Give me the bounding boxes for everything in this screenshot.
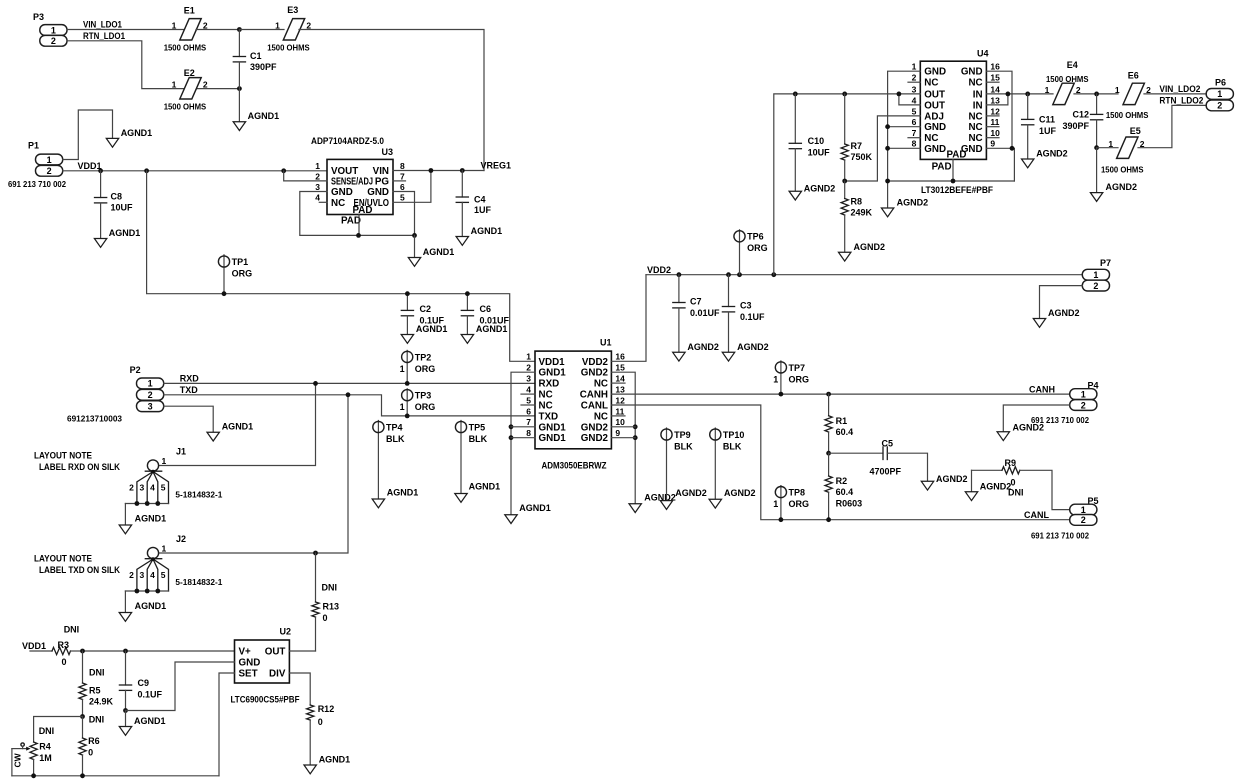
wire VDD1 to C2/C6/U1 <box>147 171 535 361</box>
svg-text:1: 1 <box>1081 389 1086 399</box>
junction VDD1-U3.2 <box>281 168 286 173</box>
svg-text:AGND1: AGND1 <box>134 716 166 726</box>
ground AGND2 (P7) <box>1033 308 1079 327</box>
svg-text:1: 1 <box>162 456 167 466</box>
svg-text:1: 1 <box>773 499 778 509</box>
svg-text:NC: NC <box>539 401 553 412</box>
svg-text:NC: NC <box>924 78 938 89</box>
regulator U4 body <box>920 61 986 159</box>
svg-text:RTN_LDO2: RTN_LDO2 <box>1159 96 1203 106</box>
junction EN-VIN <box>429 168 434 173</box>
svg-text:9: 9 <box>615 428 620 438</box>
resistor R6 <box>79 717 100 776</box>
wire U4.3 OUT <box>774 94 921 275</box>
svg-text:PG: PG <box>375 176 390 187</box>
wire P1.1 to AGND1 <box>63 110 113 160</box>
U4 pin names right <box>961 67 983 155</box>
svg-text:VIN_LDO1: VIN_LDO1 <box>83 20 122 30</box>
capacitor C12 <box>1062 94 1102 148</box>
svg-text:P1: P1 <box>28 141 39 151</box>
junction pin16-pin9 <box>1010 146 1015 151</box>
svg-text:0: 0 <box>88 747 93 757</box>
wire U4.14 IN <box>986 93 1053 95</box>
svg-text:0: 0 <box>323 613 328 623</box>
junction U1.9 <box>633 435 638 440</box>
svg-text:5-1814832-1: 5-1814832-1 <box>175 490 222 500</box>
wire U1.16 VDD2 <box>611 275 646 362</box>
test point TP3 <box>400 390 436 413</box>
ferrite bead E4 <box>1045 60 1089 105</box>
svg-text:GND1: GND1 <box>539 368 567 379</box>
U4 pin11 NC stub <box>986 126 999 128</box>
wire U1.15 GND2 <box>611 372 635 504</box>
svg-text:11: 11 <box>615 406 624 416</box>
ground AGND2 (R8) <box>839 242 886 261</box>
junction C3-VDD2 <box>726 272 731 277</box>
wire VDD1 to U2 <box>83 650 235 652</box>
svg-text:AGND1: AGND1 <box>248 111 280 121</box>
svg-text:P2: P2 <box>130 365 141 375</box>
U1 pin5 NC stub <box>521 404 535 406</box>
wire U1.8 GND1 <box>511 437 535 439</box>
svg-text:8: 8 <box>526 428 531 438</box>
svg-text:TXD: TXD <box>180 385 199 395</box>
junction J1-RXD <box>313 381 318 386</box>
svg-text:AGND2: AGND2 <box>1036 149 1068 159</box>
resistor R1 <box>825 392 853 454</box>
capacitor C10 <box>789 92 830 192</box>
wire C12 gnd <box>1096 148 1098 193</box>
svg-text:C5: C5 <box>882 439 894 449</box>
layout note J1 <box>34 450 120 472</box>
svg-text:VDD2: VDD2 <box>647 265 671 275</box>
svg-text:TP1: TP1 <box>232 257 249 267</box>
svg-text:AGND1: AGND1 <box>109 228 141 238</box>
U1 pin14 NC stub <box>611 382 625 384</box>
svg-text:C1: C1 <box>250 51 262 61</box>
svg-text:6: 6 <box>400 182 405 192</box>
svg-text:2: 2 <box>129 570 134 580</box>
svg-text:CANH: CANH <box>580 390 608 401</box>
resistor R7 <box>841 92 872 182</box>
svg-text:4: 4 <box>912 95 917 105</box>
svg-text:NC: NC <box>968 122 982 133</box>
wire J2.1 to TXD <box>159 395 348 553</box>
svg-text:4700PF: 4700PF <box>870 467 902 477</box>
svg-text:0: 0 <box>318 717 323 727</box>
connector P2 <box>67 365 164 424</box>
U3 pin names right <box>354 166 390 209</box>
svg-text:13: 13 <box>990 95 1000 105</box>
ground AGND1 (C6) <box>461 324 507 343</box>
wire U4.16 GND <box>986 71 1012 148</box>
svg-text:PAD: PAD <box>341 215 361 226</box>
junction U4.6 <box>885 124 890 129</box>
junction OUT pins <box>897 92 902 97</box>
U1 pin11 NC stub <box>611 415 625 417</box>
oscillator U2 designator <box>280 627 292 637</box>
test point TP6 <box>734 231 768 254</box>
ground AGND2 (P4) <box>997 423 1044 441</box>
resistor R2 <box>825 453 862 520</box>
svg-text:RTN_LDO1: RTN_LDO1 <box>83 31 125 41</box>
svg-text:E2: E2 <box>184 68 195 78</box>
junction R1-R2-C5 <box>826 451 831 456</box>
wire U3.5 EN <box>393 171 431 203</box>
svg-text:C3: C3 <box>740 301 752 311</box>
wire E5.2 RTN_LDO2 <box>1138 105 1206 147</box>
svg-text:14: 14 <box>615 374 625 384</box>
svg-text:1: 1 <box>51 25 56 35</box>
svg-text:AGND2: AGND2 <box>737 342 769 352</box>
part number LT3012BEFE#PBF <box>921 185 993 196</box>
svg-text:TP5: TP5 <box>469 422 486 432</box>
wire VIN_LDO1 <box>67 29 185 31</box>
junction IN pins <box>1006 92 1011 97</box>
svg-text:DIV: DIV <box>269 669 286 680</box>
op-amp U3 designator <box>382 147 394 157</box>
ground AGND2 (C12) <box>1090 182 1137 201</box>
svg-text:GND: GND <box>961 67 983 78</box>
svg-text:C7: C7 <box>690 297 702 307</box>
svg-text:CANH: CANH <box>1029 384 1055 394</box>
svg-text:LT3012BEFE#PBF: LT3012BEFE#PBF <box>921 185 993 196</box>
svg-text:1: 1 <box>773 374 778 384</box>
svg-text:LTC6900CS5#PBF: LTC6900CS5#PBF <box>231 695 300 706</box>
ground AGND2 (TP10) <box>709 488 755 508</box>
svg-text:U2: U2 <box>280 627 292 637</box>
svg-text:1: 1 <box>148 379 153 389</box>
wire U4 PAD <box>952 159 954 181</box>
svg-text:U3: U3 <box>382 147 394 157</box>
svg-text:0: 0 <box>62 657 67 667</box>
svg-text:5: 5 <box>161 483 166 493</box>
svg-text:RXD: RXD <box>180 374 200 384</box>
U4 pin2 NC stub <box>908 81 920 83</box>
svg-text:AGND1: AGND1 <box>476 324 508 334</box>
junction C2 <box>405 291 410 296</box>
U2 pin names <box>239 647 286 680</box>
svg-text:R0603: R0603 <box>836 498 863 508</box>
potentiometer R4 <box>30 726 54 776</box>
U1 pin names left <box>539 357 567 444</box>
junction C9 bottom <box>123 708 128 713</box>
junction PAD row <box>951 179 956 184</box>
svg-text:7: 7 <box>526 417 531 427</box>
svg-text:1: 1 <box>912 62 917 72</box>
svg-text:ORG: ORG <box>232 268 253 278</box>
svg-text:AGND1: AGND1 <box>121 128 153 138</box>
connector P5 <box>1031 496 1099 541</box>
svg-text:1: 1 <box>172 80 177 90</box>
connector P4 <box>1031 380 1099 425</box>
ferrite bead E3 <box>267 5 311 53</box>
svg-text:AGND2: AGND2 <box>936 474 968 484</box>
wire E6.2 VIN_LDO2 <box>1144 93 1206 95</box>
svg-text:AGND2: AGND2 <box>675 488 707 498</box>
svg-text:3: 3 <box>148 402 153 412</box>
svg-text:2: 2 <box>129 483 134 493</box>
svg-text:14: 14 <box>990 84 1000 94</box>
svg-text:R4: R4 <box>39 742 51 752</box>
svg-text:P7: P7 <box>1100 258 1111 268</box>
junction C11-IN <box>1025 92 1030 97</box>
svg-text:1500 OHMS: 1500 OHMS <box>164 102 207 112</box>
svg-text:V+: V+ <box>239 647 252 658</box>
svg-text:60.4: 60.4 <box>836 487 854 497</box>
svg-text:SENSE/ADJ: SENSE/ADJ <box>331 176 373 187</box>
svg-text:VDD2: VDD2 <box>582 357 609 368</box>
junction U1.7 <box>509 424 514 429</box>
wire R9 gnd <box>971 470 973 492</box>
svg-text:AGND2: AGND2 <box>724 488 756 498</box>
wire E5 row <box>1097 147 1118 149</box>
wire GND row <box>888 180 1015 182</box>
part number ADP7104ARDZ-5.0 <box>311 136 384 147</box>
svg-text:OUT: OUT <box>265 647 286 658</box>
svg-text:ORG: ORG <box>789 374 810 384</box>
wire TP4 lead <box>377 421 379 500</box>
svg-text:13: 13 <box>615 385 625 395</box>
test point TP9 <box>661 429 693 452</box>
wire U2 GND <box>126 662 235 711</box>
wire U4.9 GND <box>986 148 1014 181</box>
svg-text:J2: J2 <box>176 534 186 544</box>
ground AGND2 (TP9) <box>660 488 707 510</box>
wire U2 SET <box>219 673 235 776</box>
svg-text:PAD: PAD <box>353 205 373 216</box>
svg-text:C12: C12 <box>1072 110 1089 120</box>
wire VIN line <box>393 170 484 172</box>
wire E1.2 to node A <box>196 29 239 31</box>
svg-text:691213710003: 691213710003 <box>67 414 122 424</box>
capacitor C6 <box>461 294 509 335</box>
wire TP1 lead <box>223 255 225 294</box>
U4 pin numbers right <box>990 62 1000 149</box>
svg-text:1: 1 <box>172 21 177 31</box>
ground AGND2 (C11) <box>1022 149 1068 168</box>
svg-text:2: 2 <box>1081 400 1086 410</box>
wire P7.2 gnd <box>1040 286 1083 319</box>
svg-text:AGND1: AGND1 <box>222 422 254 432</box>
U3 pin numbers right <box>400 161 405 203</box>
resistor R3 <box>30 625 83 668</box>
test point TP10 <box>710 429 745 452</box>
svg-text:16: 16 <box>615 352 625 362</box>
svg-text:E4: E4 <box>1067 60 1078 70</box>
junction C6 <box>465 291 470 296</box>
junction R3-R5 <box>80 649 85 654</box>
junction TP8-CANL <box>779 517 784 522</box>
svg-text:C4: C4 <box>474 194 486 204</box>
svg-text:VOUT: VOUT <box>331 166 358 177</box>
U4 pin10 NC stub <box>986 137 999 139</box>
U4 pin15 NC stub <box>986 81 999 83</box>
connector J1 <box>119 447 222 534</box>
svg-text:GND: GND <box>239 658 261 669</box>
wire C5 gnd <box>887 453 927 481</box>
svg-text:1: 1 <box>1108 139 1113 149</box>
svg-text:U4: U4 <box>977 49 989 59</box>
svg-text:5-1814832-1: 5-1814832-1 <box>175 577 222 587</box>
svg-text:VIN_LDO2: VIN_LDO2 <box>1159 84 1200 94</box>
svg-text:BLK: BLK <box>386 434 405 444</box>
svg-text:1M: 1M <box>39 753 52 763</box>
svg-text:2: 2 <box>912 73 917 83</box>
svg-text:2: 2 <box>47 166 52 176</box>
ferrite bead E2 <box>164 68 208 112</box>
svg-text:7: 7 <box>400 171 405 181</box>
wire U3.3 GND <box>300 192 415 236</box>
svg-text:IN: IN <box>973 89 983 100</box>
ground AGND2 (C3) <box>722 342 768 361</box>
svg-text:12: 12 <box>990 106 1000 116</box>
svg-text:1UF: 1UF <box>1039 126 1057 136</box>
net label RTN_LDO1 <box>83 31 125 41</box>
wire C5 left <box>829 452 883 454</box>
wire R4 wiper to bottom <box>11 749 13 776</box>
oscillator U2 body <box>235 640 290 683</box>
svg-text:NC: NC <box>331 198 345 209</box>
wire VDD1 <box>63 170 327 172</box>
svg-text:1: 1 <box>1115 85 1120 95</box>
wire TP8 lead <box>780 486 782 520</box>
svg-text:NC: NC <box>968 133 982 144</box>
connector P7 <box>1082 258 1111 291</box>
ground AGND1 (C1) <box>233 111 279 130</box>
U4 pin names left <box>924 67 946 155</box>
resistor R13 <box>312 553 339 651</box>
svg-text:PAD: PAD <box>932 161 952 172</box>
svg-text:VDD1: VDD1 <box>22 641 46 651</box>
svg-text:7: 7 <box>912 128 917 138</box>
resistor R12 <box>307 704 335 765</box>
junction TP3-TXD <box>405 414 410 419</box>
junction U1.8 <box>509 435 514 440</box>
svg-text:GND1: GND1 <box>539 422 567 433</box>
svg-text:1500 OHMS: 1500 OHMS <box>1046 74 1089 84</box>
svg-text:4: 4 <box>150 483 155 493</box>
ferrite bead E5 <box>1101 126 1145 175</box>
svg-text:AGND2: AGND2 <box>897 198 929 208</box>
svg-text:PAD: PAD <box>947 149 967 160</box>
resistor R9 <box>972 458 1024 497</box>
net label CANL <box>1024 510 1049 520</box>
ground AGND1 (U3) <box>408 247 454 266</box>
svg-text:J1: J1 <box>176 447 186 457</box>
svg-text:AGND1: AGND1 <box>519 503 551 513</box>
svg-text:AGND2: AGND2 <box>1106 182 1138 192</box>
svg-text:BLK: BLK <box>723 441 742 451</box>
capacitor C2 <box>401 294 444 335</box>
svg-text:LAYOUT NOTE: LAYOUT NOTE <box>34 553 92 563</box>
svg-text:TP7: TP7 <box>789 363 806 373</box>
net label RTN_LDO2 <box>1159 96 1203 106</box>
net label VIN_LDO1 <box>83 20 122 30</box>
svg-text:3: 3 <box>912 84 917 94</box>
wire RTN_LDO1 <box>67 41 185 89</box>
svg-text:GND2: GND2 <box>581 433 609 444</box>
wire U4.5 ADJ <box>845 116 921 181</box>
connector P6 <box>1206 77 1233 111</box>
svg-text:11: 11 <box>990 117 999 127</box>
svg-text:C11: C11 <box>1039 115 1055 125</box>
net label VDD1 <box>78 161 102 171</box>
wire U1.7 GND1 <box>511 426 535 428</box>
svg-text:ADM3050EBRWZ: ADM3050EBRWZ <box>542 460 607 471</box>
svg-text:NC: NC <box>594 411 608 422</box>
svg-text:GND2: GND2 <box>581 422 609 433</box>
junction R7-R8 <box>842 179 847 184</box>
svg-text:0.1UF: 0.1UF <box>138 690 163 700</box>
svg-text:16: 16 <box>990 62 1000 72</box>
svg-text:AGND1: AGND1 <box>471 226 503 236</box>
wire C9 gnd <box>125 711 127 727</box>
wire P2.3 gnd <box>164 406 214 432</box>
U3 pad label inner <box>353 205 373 216</box>
svg-text:GND: GND <box>331 187 353 198</box>
svg-text:GND2: GND2 <box>581 368 609 379</box>
junction TP6-VDD2 <box>737 272 742 277</box>
svg-text:AGND2: AGND2 <box>687 342 719 352</box>
wire U2 DIV <box>289 673 310 705</box>
svg-text:VDD1: VDD1 <box>539 357 566 368</box>
test point TP1 <box>218 256 252 279</box>
ground AGND2 (U1) <box>629 492 676 512</box>
svg-text:TP10: TP10 <box>723 430 745 440</box>
wire TP3 lead <box>406 389 408 416</box>
svg-text:2: 2 <box>148 390 153 400</box>
ground AGND1 (TP5) <box>455 482 500 503</box>
svg-text:691 213 710 002: 691 213 710 002 <box>8 179 66 189</box>
svg-text:3: 3 <box>139 570 144 580</box>
ground AGND2 (C7) <box>673 342 719 361</box>
svg-text:AGND2: AGND2 <box>854 242 886 252</box>
wire TP9 lead <box>666 428 668 501</box>
svg-text:15: 15 <box>990 73 1000 83</box>
U3 pin4 NC stub <box>319 201 327 203</box>
junction C12 bottom <box>1094 145 1099 150</box>
svg-text:LAYOUT NOTE: LAYOUT NOTE <box>34 450 92 460</box>
junction U4.8 <box>885 146 890 151</box>
svg-text:1: 1 <box>315 161 320 171</box>
junction TP2-RXD <box>405 381 410 386</box>
resistor R8 <box>841 181 872 252</box>
wire TXD <box>164 395 535 416</box>
junction C9 top <box>123 649 128 654</box>
ground AGND1 (C9) <box>119 716 165 735</box>
wire bottom rail <box>12 775 219 777</box>
svg-text:1: 1 <box>162 544 167 554</box>
connector P3 <box>33 12 67 46</box>
svg-text:AGND2: AGND2 <box>804 184 836 194</box>
junction TP1 <box>222 291 227 296</box>
junction R5-R6 <box>80 714 85 719</box>
ground AGND2 (R9) <box>965 482 1011 501</box>
svg-text:AGND1: AGND1 <box>319 755 351 765</box>
svg-text:2: 2 <box>203 80 208 90</box>
svg-text:TP3: TP3 <box>415 391 432 401</box>
connector J2 <box>119 534 222 621</box>
svg-text:1500 OHMS: 1500 OHMS <box>1106 110 1149 120</box>
svg-text:NC: NC <box>968 78 982 89</box>
svg-text:10UF: 10UF <box>808 147 831 157</box>
net label TXD <box>180 385 199 395</box>
svg-text:LABEL RXD ON SILK: LABEL RXD ON SILK <box>39 462 120 472</box>
ground AGND1 (C2) <box>401 324 447 343</box>
net label RXD <box>180 374 200 384</box>
U4 pin7 NC stub <box>908 137 920 139</box>
